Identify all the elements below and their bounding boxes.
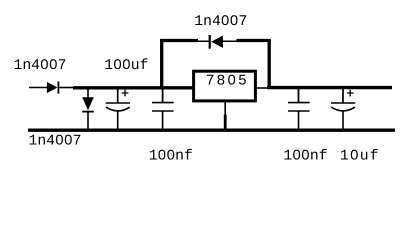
svg-text:100nf: 100nf <box>283 149 327 165</box>
svg-text:1n4007: 1n4007 <box>194 14 247 30</box>
svg-text:10uf: 10uf <box>340 149 380 165</box>
svg-text:100nf: 100nf <box>149 149 193 165</box>
svg-text:1n4007: 1n4007 <box>14 58 67 74</box>
svg-text:1n4007: 1n4007 <box>29 133 82 149</box>
svg-text:7805: 7805 <box>206 74 249 90</box>
svg-text:100uf: 100uf <box>104 58 148 74</box>
